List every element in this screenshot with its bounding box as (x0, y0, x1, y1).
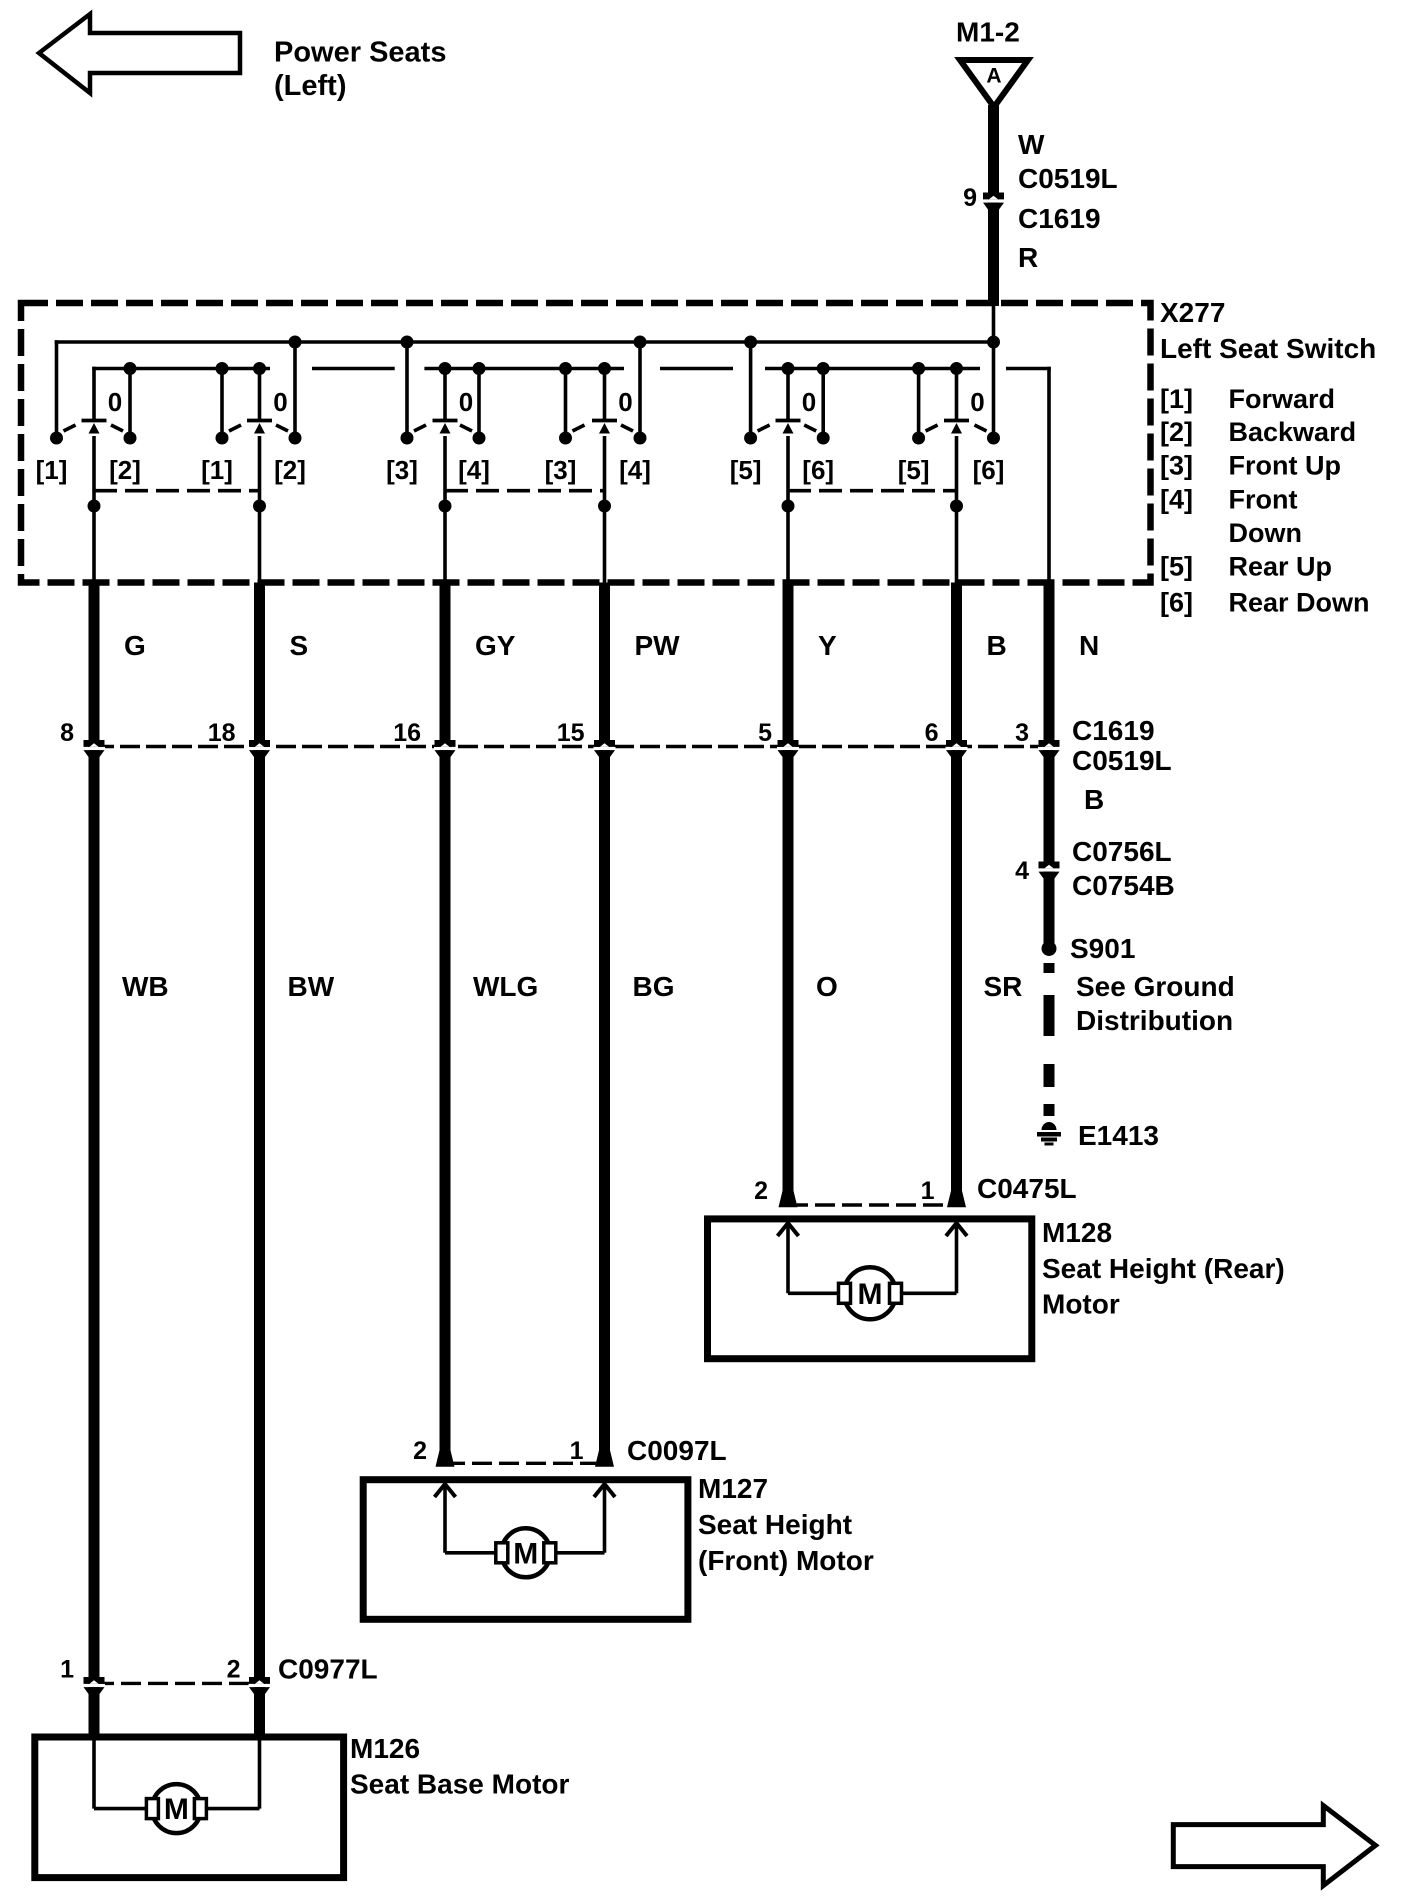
motor M128 box (708, 1219, 1032, 1359)
connector C0475L dashed line (754, 1173, 1077, 1205)
svg-text:Front Up: Front Up (1229, 451, 1341, 481)
svg-text:M128: M128 (1042, 1217, 1112, 1248)
svg-text:Forward: Forward (1229, 384, 1336, 414)
svg-text:1: 1 (60, 1656, 74, 1684)
switch S4 contacts [3]/[4] (545, 336, 651, 583)
wire GY vertical (436, 583, 455, 1467)
title Power Seats (Left) (274, 37, 446, 103)
svg-text:WB: WB (122, 971, 169, 1002)
wire W/R feed from M1-2 down to X277 (988, 105, 999, 306)
svg-text:[5]: [5] (1160, 552, 1193, 582)
motor M128 symbol (839, 1267, 902, 1319)
svg-text:Distribution: Distribution (1076, 1005, 1233, 1036)
svg-text:[3]: [3] (386, 455, 418, 485)
svg-text:6: 6 (925, 719, 939, 747)
svg-text:[1]: [1] (1160, 384, 1193, 414)
bus wire top (feed bus inside X277) (55, 340, 994, 434)
svg-text:O: O (816, 971, 838, 1002)
svg-text:C0977L: C0977L (278, 1654, 378, 1685)
off-page source M1-2 label (956, 17, 1020, 48)
svg-text:Seat Height: Seat Height (698, 1509, 852, 1540)
connector C0977L dashed line and pins (60, 1654, 378, 1695)
linkage dashed (switch pair 3) (788, 489, 957, 493)
labels C1619 C0519L (1072, 715, 1172, 776)
connector C0519L/C1619 pin 9 inline (963, 163, 1118, 234)
svg-text:[4]: [4] (1160, 485, 1193, 515)
svg-text:2: 2 (754, 1177, 768, 1205)
wire N riser from neutral bus to box bottom (1047, 367, 1051, 583)
svg-text:Front: Front (1229, 485, 1298, 515)
svg-text:8: 8 (60, 719, 74, 747)
svg-text:[3]: [3] (545, 455, 577, 485)
svg-text:9: 9 (963, 184, 977, 212)
label X277 Left Seat Switch (1160, 297, 1376, 364)
wire SR dashed to ground distribution (1049, 963, 1235, 1116)
connector pin 8 (60, 719, 105, 757)
svg-text:M127: M127 (698, 1473, 768, 1504)
svg-text:0: 0 (618, 387, 632, 417)
svg-text:1: 1 (570, 1437, 584, 1465)
svg-text:[6]: [6] (973, 455, 1005, 485)
svg-text:Down: Down (1229, 518, 1303, 548)
svg-text:Power Seats: Power Seats (274, 37, 446, 69)
switch S2 contacts [1]/[2] (201, 336, 306, 583)
svg-text:BG: BG (633, 971, 675, 1002)
connector C0756L/C0754B pin 4 inline (1015, 836, 1175, 901)
linkage dashed (switch pair 2) (445, 489, 605, 493)
splice S901 (1042, 933, 1136, 964)
svg-text:C0097L: C0097L (627, 1435, 727, 1466)
svg-text:B: B (1084, 784, 1104, 815)
labels wire colors WB BW WLG BG O SR (122, 971, 1022, 1002)
switch S5 contacts [5]/[6] (730, 336, 834, 583)
svg-text:0: 0 (273, 387, 287, 417)
svg-text:Rear Down: Rear Down (1229, 588, 1370, 618)
svg-text:N: N (1079, 630, 1099, 661)
svg-text:[2]: [2] (109, 455, 141, 485)
connector pin 5 (758, 719, 799, 757)
svg-text:SR: SR (984, 971, 1023, 1002)
svg-text:A: A (986, 65, 1001, 88)
motor M128 internal wiring (778, 1223, 968, 1293)
svg-text:WLG: WLG (473, 971, 538, 1002)
svg-text:(Left): (Left) (274, 70, 346, 102)
svg-text:B: B (987, 630, 1007, 661)
labels wire colors G S GY PW Y B N (124, 630, 1099, 661)
svg-text:[3]: [3] (1160, 451, 1193, 481)
svg-text:M: M (513, 1537, 538, 1570)
svg-text:S901: S901 (1070, 933, 1135, 964)
connector pin 6 (925, 719, 968, 757)
svg-text:Left Seat Switch: Left Seat Switch (1160, 333, 1376, 364)
svg-text:C0756L: C0756L (1072, 836, 1172, 867)
svg-text:GY: GY (475, 630, 516, 661)
svg-text:16: 16 (393, 719, 421, 747)
svg-text:[1]: [1] (201, 455, 233, 485)
svg-text:M1-2: M1-2 (956, 17, 1020, 48)
svg-text:[2]: [2] (274, 455, 306, 485)
svg-text:1: 1 (921, 1177, 935, 1205)
svg-text:M: M (164, 1793, 189, 1826)
svg-text:G: G (124, 630, 146, 661)
connector pin 3 (1015, 719, 1060, 757)
wire S vertical (254, 583, 265, 1738)
svg-text:Y: Y (818, 630, 837, 661)
source triangle A (M1-2) (960, 60, 1028, 107)
legend switch positions (1160, 384, 1370, 618)
page-link arrow right (1173, 1806, 1375, 1886)
motor M127 internal wiring (435, 1484, 616, 1553)
label W wire color (1018, 129, 1045, 160)
connector C0097L dashed line (413, 1435, 727, 1466)
labels M126 Seat Base Motor (350, 1733, 569, 1800)
wire B vertical (947, 583, 966, 1208)
svg-text:[6]: [6] (802, 455, 834, 485)
svg-text:See Ground: See Ground (1076, 971, 1235, 1002)
switch box X277 dashed outline (21, 303, 1151, 583)
svg-text:0: 0 (802, 387, 816, 417)
connector pin 16 (393, 719, 456, 757)
svg-text:W: W (1018, 129, 1045, 160)
svg-text:Motor: Motor (1042, 1289, 1120, 1320)
svg-text:15: 15 (557, 719, 585, 747)
svg-text:Seat Base Motor: Seat Base Motor (350, 1769, 569, 1800)
svg-text:BW: BW (288, 971, 335, 1002)
svg-text:4: 4 (1015, 857, 1029, 885)
wire G vertical (89, 583, 100, 1738)
svg-text:PW: PW (635, 630, 681, 661)
motor M126 internal wiring (94, 1740, 260, 1809)
svg-text:Rear Up: Rear Up (1229, 552, 1333, 582)
svg-text:[6]: [6] (1160, 588, 1193, 618)
label R wire color (1018, 242, 1038, 273)
page-link arrow left (Power Seats Left) (39, 14, 240, 93)
switch S3 contacts [3]/[4] (386, 336, 490, 583)
labels M128 Seat Height (Rear) Motor (1042, 1217, 1285, 1320)
motor M127 symbol (496, 1528, 556, 1577)
svg-text:R: R (1018, 242, 1038, 273)
wire N vertical (1044, 583, 1055, 949)
svg-text:C0519L: C0519L (1072, 745, 1172, 776)
connector pin 18 (208, 719, 271, 757)
svg-text:0: 0 (108, 387, 122, 417)
svg-text:[1]: [1] (36, 455, 68, 485)
bus wire second (neutral bus inside X277) (92, 367, 1051, 421)
svg-text:0: 0 (459, 387, 473, 417)
ground E1413 (1037, 1120, 1159, 1151)
svg-text:C1619: C1619 (1072, 715, 1155, 746)
motor M127 box (363, 1480, 688, 1620)
svg-text:E1413: E1413 (1078, 1120, 1159, 1151)
labels M127 Seat Height (Front) Motor (698, 1473, 874, 1576)
motor M126 box (35, 1737, 344, 1878)
svg-text:M126: M126 (350, 1733, 420, 1764)
svg-text:2: 2 (413, 1437, 427, 1465)
svg-text:S: S (290, 630, 309, 661)
svg-text:C0519L: C0519L (1018, 163, 1118, 194)
svg-text:[5]: [5] (898, 455, 930, 485)
wire Y vertical (779, 583, 798, 1208)
switch S1 contacts [1]/[2] (36, 362, 141, 583)
svg-text:C1619: C1619 (1018, 203, 1101, 234)
svg-text:18: 18 (208, 719, 236, 747)
svg-text:2: 2 (227, 1656, 241, 1684)
label B wire color (ground wire) (1084, 784, 1104, 815)
wire PW vertical (595, 583, 614, 1467)
svg-text:3: 3 (1015, 719, 1029, 747)
linkage dashed (switch pair 1) (94, 489, 260, 493)
connector line C1619/C0519L dashed (94, 745, 1049, 748)
svg-text:[4]: [4] (619, 455, 651, 485)
connector pin 15 (557, 719, 616, 757)
svg-text:[2]: [2] (1160, 417, 1193, 447)
svg-text:C0475L: C0475L (977, 1173, 1077, 1204)
svg-text:0: 0 (970, 387, 984, 417)
feed wire inside X277 down to [6] contact (987, 303, 1000, 438)
svg-text:5: 5 (758, 719, 772, 747)
svg-text:[4]: [4] (458, 455, 490, 485)
switch S6 contacts [5]/[6] (898, 362, 1005, 583)
svg-text:(Front) Motor: (Front) Motor (698, 1545, 874, 1576)
svg-text:M: M (858, 1278, 883, 1311)
motor M126 symbol (146, 1784, 206, 1833)
svg-text:X277: X277 (1160, 297, 1225, 328)
svg-text:Backward: Backward (1229, 417, 1357, 447)
svg-text:C0754B: C0754B (1072, 870, 1175, 901)
svg-text:[5]: [5] (730, 455, 762, 485)
svg-text:Seat Height (Rear): Seat Height (Rear) (1042, 1253, 1285, 1284)
